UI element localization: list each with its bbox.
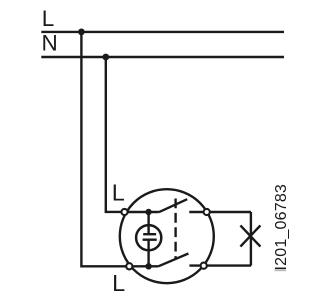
terminal lower-right: [201, 263, 207, 269]
svg-text:L: L: [42, 6, 55, 31]
svg-text:N: N: [42, 31, 58, 56]
junction upper lamp tap: [145, 209, 151, 215]
wire: lower row common: [129, 265, 158, 267]
svg-text:L: L: [112, 270, 125, 296]
glow lamp E1 envelope: [136, 225, 161, 250]
wire: lower fixed contact return: [189, 264, 251, 266]
junction lower lamp tap: [145, 263, 151, 269]
switch device outline U1: [120, 189, 214, 283]
glow lamp electrode top: [143, 233, 156, 235]
wire: phase line L: [41, 31, 284, 33]
wire: glow lamp top lead: [147, 212, 149, 234]
terminal upper-right: [204, 209, 210, 215]
wire: left drop from L to bottom feed: [81, 32, 129, 266]
mechanical link (dashed): [174, 199, 176, 259]
junction on L line: [78, 29, 85, 36]
svg-text:I201_06783: I201_06783: [273, 184, 290, 271]
switch contact S1 lever: [159, 199, 187, 212]
glow lamp electrode bottom: [143, 238, 157, 240]
switch contact S2 lever: [158, 254, 188, 267]
wire: right branch vertical: [250, 212, 252, 266]
wire: upper row common: [125, 211, 159, 213]
faint print artifact under drawing id: [275, 269, 286, 271]
wire: upper fixed contact to lamp branch: [189, 211, 251, 213]
wire: glow lamp bottom lead: [147, 240, 149, 267]
junction on N line: [102, 54, 109, 61]
wire: neutral line N: [41, 56, 284, 58]
terminal lower-left: [126, 263, 132, 269]
lamp load X symbol: [240, 225, 260, 246]
svg-text:L: L: [112, 180, 125, 206]
wire: drop from N to upper-left terminal: [106, 57, 125, 212]
terminal upper-left: [121, 209, 127, 215]
